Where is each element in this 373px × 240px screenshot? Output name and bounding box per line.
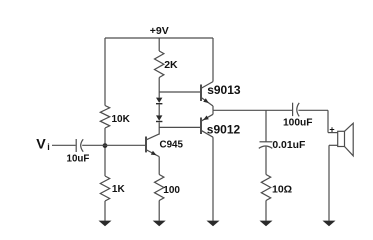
wire 10K to 1K through input node: [104, 128, 106, 176]
s9012 collector: [201, 130, 213, 137]
wire s9013 base wire: [159, 91, 200, 93]
svg-text:10K: 10K: [112, 114, 131, 125]
svg-text:+9V: +9V: [150, 25, 169, 37]
ground under speaker: [323, 221, 336, 227]
wire Vi to 10uF cap: [52, 144, 76, 146]
wire speaker bottom terminal: [329, 144, 338, 146]
wire 100 ohm to ground: [158, 201, 160, 221]
power rail +9V: [105, 37, 213, 39]
ground under 10 ohm: [260, 221, 273, 227]
s9012 emitter arrow: [203, 116, 209, 121]
ground under 1K: [99, 221, 112, 227]
speaker LS1 body: [338, 131, 345, 146]
C945 emitter arrow: [151, 151, 157, 156]
C945 emitter: [146, 150, 159, 157]
wire s9012 collector to ground: [212, 137, 214, 221]
ground under s9012: [207, 221, 220, 227]
wire left rail down to 10K: [104, 38, 106, 106]
transistor Q2 s9013 base bar: [200, 85, 202, 102]
svg-text:C945: C945: [160, 140, 184, 151]
wire 100uF to speaker branch: [298, 109, 328, 111]
C945 collector: [146, 134, 159, 140]
s9012 emitter: [201, 114, 213, 121]
wire C945 emitter to 100 ohm: [158, 157, 160, 175]
svg-text:10uF: 10uF: [67, 153, 90, 164]
svg-text:100uF: 100uF: [283, 118, 312, 129]
wire 0.01uF to 10 ohm: [265, 147, 267, 175]
wire speaker to ground: [328, 145, 330, 221]
diode D2: [156, 115, 162, 120]
svg-text:1K: 1K: [112, 184, 126, 195]
svg-text:0.01uF: 0.01uF: [272, 140, 305, 151]
diode D1: [156, 98, 162, 103]
wire 1K to ground: [104, 201, 106, 221]
capacitor C2 100uF: [292, 103, 294, 116]
wire output node to s9012 emitter: [212, 110, 214, 114]
wire s9013 collector to rail: [212, 38, 214, 82]
svg-text:V: V: [36, 137, 46, 153]
speaker LS1 cone: [345, 123, 354, 156]
wire branch down to 0.01uF: [265, 110, 267, 142]
capacitor C1 10uF: [75, 139, 77, 152]
svg-text:2K: 2K: [164, 59, 178, 71]
capacitor C3 0.01uF: [260, 141, 273, 143]
wire output node to 100uF: [213, 109, 292, 111]
transistor Q3 s9012 base bar: [200, 118, 202, 135]
resistor 10K: [100, 106, 109, 129]
wire to speaker top terminal: [328, 132, 338, 134]
resistor R3 100: [155, 175, 164, 201]
wire 10uF cap to C945 base: [82, 144, 145, 146]
wire down to speaker plus terminal: [327, 110, 329, 132]
svg-text:100: 100: [163, 185, 180, 196]
resistor 1K: [100, 176, 109, 201]
svg-text:i: i: [47, 142, 50, 152]
wire s9012 base wire: [159, 126, 200, 128]
svg-text:s9013: s9013: [207, 83, 241, 97]
wire D1 to D2: [158, 105, 160, 116]
ground under 100 ohm: [153, 221, 166, 227]
transistor Q1 C945 base bar: [145, 137, 147, 153]
wire s9013 emitter to output node: [212, 106, 214, 110]
s9013 emitter arrow: [203, 98, 209, 103]
wire 10 ohm to ground: [265, 201, 267, 221]
svg-text:10Ω: 10Ω: [272, 184, 292, 196]
wire +9V rail to 2K: [158, 38, 160, 51]
svg-text:s9012: s9012: [207, 123, 241, 137]
node input junction dot: [103, 143, 108, 148]
s9013 collector: [201, 82, 213, 89]
resistor 2K: [155, 51, 164, 78]
wire 2K to diode D1: [158, 78, 160, 98]
wire D2 to C945 collector node: [158, 122, 160, 134]
resistor R4 10 ohm: [261, 175, 270, 201]
s9013 emitter: [201, 97, 213, 106]
